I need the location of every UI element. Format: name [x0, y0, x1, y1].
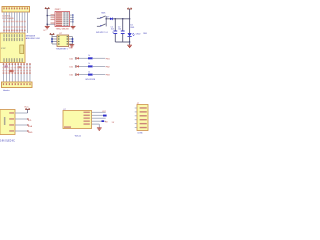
svg-text:CON6: CON6 [137, 133, 142, 135]
svg-text:1u: 1u [112, 32, 114, 34]
svg-text:LED2: LED2 [136, 33, 141, 35]
svg-text:0.96 OLED IIC: 0.96 OLED IIC [0, 140, 15, 142]
svg-text:D?: D? [107, 16, 109, 18]
svg-text:WX-01: WX-01 [75, 136, 82, 138]
svg-text:1k: 1k [88, 55, 90, 57]
svg-text:D41: D41 [70, 58, 73, 60]
svg-text:D61: D61 [70, 75, 73, 77]
svg-text:TW-BESET1: TW-BESET1 [56, 48, 69, 50]
svg-text:ICSP: ICSP [1, 48, 6, 50]
svg-text:TSW-2 DBCXB: TSW-2 DBCXB [56, 28, 70, 30]
svg-text:GND: GND [28, 132, 33, 134]
svg-text:PWR?: PWR? [55, 9, 62, 11]
svg-text:D12 SDA A5: D12 SDA A5 [2, 17, 14, 20]
svg-text:SW-SPDT: SW-SPDT [96, 32, 106, 34]
svg-text:D51: D51 [70, 66, 73, 68]
svg-text:1k: 1k [88, 71, 90, 73]
svg-text:C4: C4 [105, 32, 107, 34]
svg-text:1k: 1k [88, 63, 90, 65]
svg-text:WS-2812B: WS-2812B [85, 79, 95, 81]
svg-text:104: 104 [111, 29, 114, 31]
svg-text:ARDUINO UNO: ARDUINO UNO [26, 37, 41, 40]
svg-text:Header: Header [3, 90, 10, 92]
svg-text:104: 104 [118, 29, 121, 31]
svg-text:D13 SCL: D13 SCL [2, 15, 11, 17]
svg-text:GND: GND [69, 48, 74, 50]
